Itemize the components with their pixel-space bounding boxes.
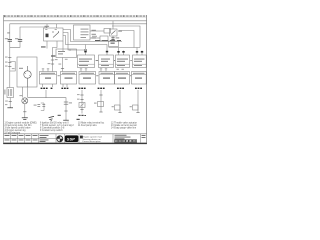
R6 band line <box>132 74 147 76</box>
V3 side label <box>112 106 114 107</box>
wire nest 2 <box>63 33 84 51</box>
svg-text:SSP: SSP <box>67 136 75 141</box>
R5 center text <box>118 78 126 79</box>
R1 top band text <box>41 73 55 74</box>
title block micro text <box>5 135 49 142</box>
R5 bottom labels <box>117 88 124 89</box>
R3 bottom labels <box>79 88 86 89</box>
M11 bottom strip <box>78 63 95 65</box>
R5 band line <box>115 74 130 76</box>
connector inline X30 <box>85 49 87 51</box>
solenoid connector label <box>69 102 72 103</box>
wire X20 down to R2 <box>62 58 64 72</box>
R1 bottom stubs <box>43 84 53 87</box>
M13 side label <box>114 60 115 61</box>
switch box S1 top right <box>110 29 118 36</box>
label between R3 R4 <box>96 75 98 76</box>
M11 strip text <box>79 65 88 66</box>
R1 pin labels <box>42 67 49 70</box>
relay K1 label <box>45 26 50 27</box>
junction box label <box>111 43 115 44</box>
X20 top ticks <box>63 49 70 51</box>
R1 band line <box>40 74 57 76</box>
sheet number digits <box>115 140 137 143</box>
X20 inner text <box>58 51 65 54</box>
wire motor to pump cluster <box>23 87 28 98</box>
R3 top band text <box>81 73 95 74</box>
valve box V1 <box>79 103 85 108</box>
legend text column 4 <box>111 122 137 130</box>
R6 top band text <box>133 73 145 74</box>
tick on solenoid wire <box>64 110 67 112</box>
label left R6 <box>130 75 131 76</box>
pin tick B2 <box>106 51 108 53</box>
ground G3 <box>63 119 69 121</box>
R4 pin labels <box>100 67 107 70</box>
relay coil <box>46 34 49 38</box>
X55 label <box>34 105 37 106</box>
track number strip <box>4 15 147 17</box>
connector tick on pump wire <box>23 111 26 113</box>
pin tick B4a <box>136 51 138 53</box>
ground G3 label <box>58 115 61 116</box>
M12 bottom strip <box>99 63 114 65</box>
fuse F3 label <box>116 37 120 38</box>
M14 inner text <box>134 59 145 62</box>
wire bottom collector <box>109 47 141 49</box>
svg-text:14 Evap purge valve line: 14 Evap purge valve line <box>111 127 137 130</box>
tick end R5 wire <box>118 112 121 114</box>
svg-text:9 Coolant temp switch: 9 Coolant temp switch <box>40 129 63 132</box>
R2 band line <box>61 74 77 76</box>
inline connector on solenoid wire <box>64 102 68 104</box>
R3 center text <box>83 78 91 79</box>
BMW roundel <box>56 135 63 142</box>
M14 strip text <box>134 65 142 66</box>
R3 pin labels <box>80 67 87 70</box>
M14 side label <box>130 60 131 61</box>
rail 41 labels <box>95 40 121 41</box>
row1 module box M13 <box>116 55 130 68</box>
label between R1 R2 <box>58 75 60 76</box>
wire ECU to box lower <box>90 37 100 39</box>
pin stub B3a top <box>118 48 120 56</box>
wire switch to fuse <box>112 36 114 41</box>
fuse F2 label <box>15 38 18 39</box>
row2 box R1 <box>40 72 57 85</box>
connector X1 labels <box>5 57 15 70</box>
wire nest 4 <box>62 41 64 49</box>
R4 band line <box>99 74 115 76</box>
label 31S below R3 wire <box>77 119 80 120</box>
fuse F3 <box>111 38 114 40</box>
legend text column 2 <box>40 122 74 133</box>
V2 label <box>94 103 97 104</box>
label above wire <box>92 35 97 38</box>
M14 bottom strip <box>133 63 147 65</box>
tick on X20-R2 wire <box>61 68 64 70</box>
row2 box R3 <box>79 72 96 85</box>
border frame left <box>3 15 5 144</box>
M12 inner text <box>101 59 110 62</box>
border frame right <box>146 15 148 144</box>
motor module label <box>19 68 23 69</box>
label on X20-R2 wire <box>65 58 68 61</box>
doc number micro text <box>115 135 131 139</box>
pin stub B4b top <box>141 51 143 56</box>
wires relay to right nest <box>63 30 122 56</box>
valve box V4 <box>133 105 139 110</box>
motor M1 <box>24 66 31 87</box>
wire rail R <box>20 27 47 39</box>
R1 pin stubs top <box>43 70 48 72</box>
small box X11 <box>100 36 108 41</box>
pump connector circle X9 <box>22 98 28 104</box>
label2 on X20-R2 wire <box>58 63 61 66</box>
wire relay pin 87 down <box>53 41 58 72</box>
ground label relay <box>41 46 46 47</box>
svg-text:5 Fuel injectors: 5 Fuel injectors <box>5 131 21 134</box>
R1 center text <box>45 78 51 79</box>
wire nest 3 <box>63 36 107 56</box>
wire pump down to ground <box>24 104 26 118</box>
pin stub B1 top <box>85 45 87 56</box>
wire R3 down <box>81 90 83 114</box>
wire rail to switch <box>112 21 114 29</box>
M13 strip text <box>117 65 125 66</box>
motor M1 hatch <box>24 72 31 77</box>
M12 strip text <box>101 65 109 66</box>
sensor box label <box>4 90 5 95</box>
ticks on R3 wire <box>80 95 83 100</box>
wire rail 30 <box>4 20 147 22</box>
valve box V2 <box>98 102 104 107</box>
legend text column 1 <box>5 122 37 135</box>
wire nest right inner <box>119 31 135 48</box>
V1 inner mark <box>80 104 84 107</box>
wire left feed down <box>9 47 11 87</box>
R1 bottom labels <box>41 88 53 89</box>
switch label <box>118 31 122 32</box>
connector label <box>5 100 8 103</box>
R4 bottom labels <box>98 88 105 89</box>
wire R6 down <box>137 90 139 113</box>
R2 bottom stubs <box>63 84 67 87</box>
row2 box R5 <box>115 72 130 85</box>
wire branch bracket <box>10 62 15 72</box>
sheet number stamp <box>115 140 137 142</box>
relay K1 box <box>44 28 64 41</box>
fuse F2 <box>18 39 22 41</box>
border frame bottom <box>3 143 147 145</box>
row1 module box M11 <box>78 55 95 68</box>
R4 pin stubs top <box>101 70 106 72</box>
row2 box R4 <box>99 72 115 85</box>
R2 bottom labels <box>61 88 68 89</box>
labels above R5 <box>117 68 124 71</box>
pin tick B3b <box>122 51 124 53</box>
R5 top band text <box>116 73 128 74</box>
junction box X34 <box>109 41 119 47</box>
row2 box R2 <box>61 72 77 85</box>
pump cluster label <box>19 94 22 97</box>
R6 bottom labels <box>135 88 142 89</box>
wire rail 15 <box>10 24 147 39</box>
wire sensor down <box>9 98 11 108</box>
title block grid <box>4 134 147 143</box>
legend separator line <box>4 133 147 135</box>
R4 center text <box>103 78 110 79</box>
relay pin stub top <box>46 24 48 28</box>
logo plate <box>65 135 79 142</box>
wire run mid bottom junction <box>45 90 47 98</box>
row2 box R6 <box>132 72 147 85</box>
connector ticks on feed <box>51 60 54 64</box>
wire nest right outer <box>112 26 140 48</box>
M13 inner text <box>117 59 128 62</box>
pin tick B1 <box>84 51 86 53</box>
R3 wire end labels <box>78 115 86 116</box>
wire relay pin 85 down <box>46 41 48 49</box>
X55 bracket <box>41 103 44 111</box>
label A6300 <box>51 55 55 56</box>
R3 band line <box>79 74 96 76</box>
doc info text <box>83 136 103 144</box>
ECU internal text <box>81 29 89 38</box>
row1 module box M14 <box>133 55 147 68</box>
R2 center text <box>65 78 73 79</box>
wire fuse loop bottom <box>10 42 20 48</box>
connector X1 ticks <box>8 58 11 67</box>
relay pin stub top 2 <box>56 24 58 28</box>
wire pump to solenoid run <box>28 98 66 120</box>
tick on R4 wire <box>99 94 102 96</box>
wire nest 1 <box>63 30 122 42</box>
doc info small square <box>80 136 83 139</box>
svg-text:11 Fuel pump wire: 11 Fuel pump wire <box>78 124 97 127</box>
pin stub B3b top <box>123 51 125 56</box>
motor module box A2 <box>17 57 37 87</box>
R4 top band text <box>101 73 114 74</box>
switch symbol <box>111 31 116 35</box>
fuse F1 <box>8 39 12 41</box>
V4 side label <box>130 106 132 107</box>
row1 module box M12 <box>99 55 114 68</box>
R3 pin stubs top <box>81 70 86 72</box>
pin stub B4a top <box>136 48 138 56</box>
pin tick B3a <box>117 51 119 53</box>
fuse box F55 <box>104 29 111 34</box>
ground G2 <box>7 107 13 109</box>
R2 top band text <box>62 73 75 74</box>
sensor box B1 left <box>7 88 14 98</box>
wire R5 down <box>119 90 121 113</box>
svg-text:Format description: Format description <box>83 140 102 143</box>
wire ECU to fuse box <box>90 30 104 32</box>
tick end R4 wire <box>99 111 102 113</box>
fuse F1 label <box>5 38 8 39</box>
wire R4 down <box>100 90 102 112</box>
relay switch <box>53 31 59 38</box>
connector housing X20 <box>56 49 77 58</box>
ECU pin labels <box>92 30 96 39</box>
M11 inner text <box>79 59 92 62</box>
chassis ground glyph <box>49 116 54 121</box>
inline connector X55 <box>37 105 45 107</box>
ground G1 <box>22 118 28 120</box>
connector labels on feed <box>48 59 58 64</box>
valve box V3 <box>115 105 121 110</box>
connector tick sensor wire <box>9 101 12 103</box>
R6 center text <box>135 78 142 79</box>
pin tick B4b <box>141 51 143 53</box>
right cell text <box>142 135 146 138</box>
legend text column 3 <box>78 122 105 128</box>
M11 side label <box>96 60 99 61</box>
relay pin numbers <box>45 28 57 31</box>
rail label 30 <box>7 32 10 33</box>
tick below V1 <box>80 109 83 111</box>
sensor box hatch <box>9 89 12 96</box>
ground G2 label <box>5 103 7 106</box>
tick labels R3 wire <box>77 94 80 99</box>
ECU box A1 <box>74 25 91 40</box>
tick end R6 wire <box>136 112 139 114</box>
M13 bottom strip <box>116 63 130 65</box>
